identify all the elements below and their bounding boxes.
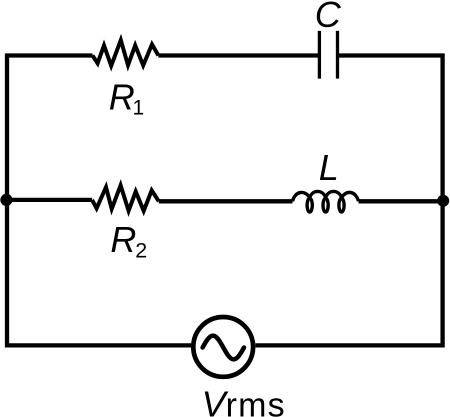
svg-text:L: L xyxy=(319,147,339,188)
svg-text:Vrms: Vrms xyxy=(202,383,286,417)
svg-text:C: C xyxy=(315,0,342,35)
inductor L coil xyxy=(293,191,359,212)
svg-text:R1: R1 xyxy=(109,77,144,120)
wire top-left + left vertical + bottom-left xyxy=(5,53,191,347)
resistor R2 xyxy=(92,185,159,211)
source circle xyxy=(193,317,253,377)
svg-text:R2: R2 xyxy=(110,219,147,263)
resistor R1 xyxy=(93,40,159,66)
wire R1 to capacitor xyxy=(158,53,319,57)
wire top-right + right vertical + bottom-right xyxy=(255,53,444,347)
wire left dot to R2 xyxy=(5,198,92,202)
source sine symbol xyxy=(203,336,244,360)
wire R2 to inductor xyxy=(159,199,293,203)
wire inductor to right dot xyxy=(359,199,443,203)
node right junction xyxy=(437,195,449,207)
node left junction xyxy=(0,194,12,206)
capacitor C plates xyxy=(319,31,337,79)
